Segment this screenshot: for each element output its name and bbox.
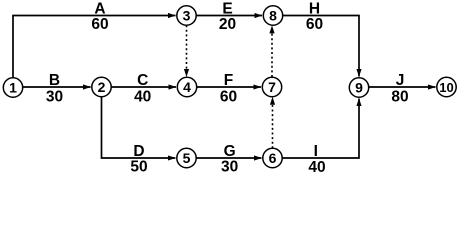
svg-text:5: 5 xyxy=(183,150,191,166)
svg-text:F: F xyxy=(224,72,233,89)
svg-text:A: A xyxy=(94,1,105,18)
svg-text:1: 1 xyxy=(9,80,17,96)
svg-text:60: 60 xyxy=(306,16,323,33)
svg-text:E: E xyxy=(222,1,232,18)
svg-text:J: J xyxy=(396,72,405,89)
svg-text:H: H xyxy=(309,1,320,18)
svg-text:6: 6 xyxy=(269,150,277,166)
svg-text:40: 40 xyxy=(134,89,151,106)
svg-text:B: B xyxy=(49,72,60,89)
svg-text:I: I xyxy=(314,143,318,160)
svg-text:80: 80 xyxy=(391,89,408,106)
svg-text:60: 60 xyxy=(220,89,237,106)
svg-text:10: 10 xyxy=(439,80,453,95)
svg-text:30: 30 xyxy=(221,159,238,176)
svg-text:G: G xyxy=(224,143,236,160)
svg-text:D: D xyxy=(133,143,144,160)
svg-text:30: 30 xyxy=(46,89,63,106)
svg-text:9: 9 xyxy=(355,80,363,96)
svg-text:3: 3 xyxy=(183,8,191,24)
svg-text:C: C xyxy=(137,72,148,89)
svg-text:4: 4 xyxy=(183,79,191,95)
svg-text:20: 20 xyxy=(219,16,236,33)
svg-text:60: 60 xyxy=(91,16,108,33)
svg-text:8: 8 xyxy=(269,8,277,24)
svg-text:7: 7 xyxy=(268,79,276,95)
svg-text:50: 50 xyxy=(130,159,147,176)
svg-text:2: 2 xyxy=(98,79,106,95)
svg-text:40: 40 xyxy=(308,159,325,176)
